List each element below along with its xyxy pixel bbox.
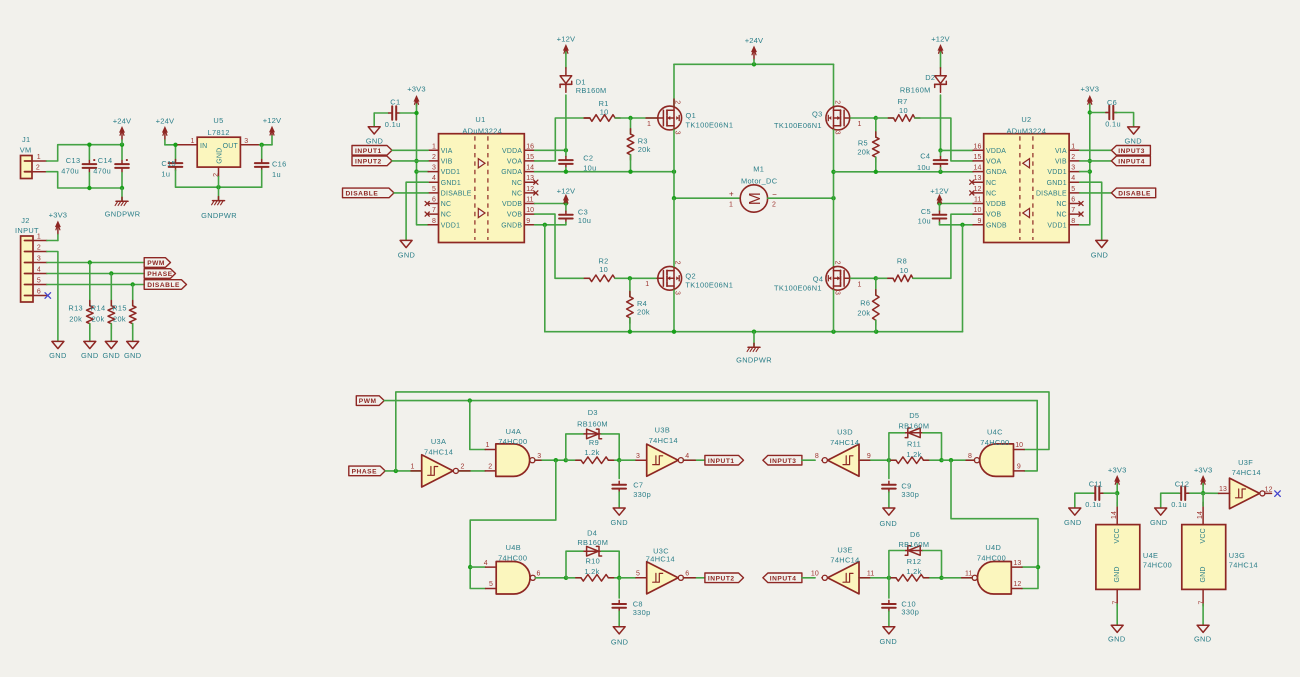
svg-text:GND: GND (611, 637, 628, 646)
svg-text:RB160M: RB160M (898, 540, 929, 549)
svg-text:20k: 20k (857, 148, 870, 157)
svg-text:12: 12 (1265, 486, 1273, 493)
svg-text:Q4: Q4 (813, 275, 824, 284)
svg-text:INPUT3: INPUT3 (1118, 148, 1145, 155)
svg-text:R10: R10 (585, 557, 600, 566)
svg-text:GNDPWR: GNDPWR (105, 210, 141, 219)
svg-text:C11: C11 (1089, 479, 1103, 488)
svg-text:2: 2 (772, 201, 776, 208)
svg-text:C6: C6 (1107, 98, 1117, 107)
svg-text:C13: C13 (66, 156, 81, 165)
svg-text:INPUT1: INPUT1 (355, 148, 382, 155)
svg-text:1u: 1u (161, 170, 170, 179)
svg-text:1u: 1u (272, 170, 281, 179)
svg-text:VIB: VIB (1055, 159, 1067, 166)
svg-text:74HC00: 74HC00 (980, 438, 1009, 447)
svg-text:C2: C2 (583, 153, 593, 162)
svg-text:1.2k: 1.2k (584, 448, 599, 457)
svg-text:2: 2 (488, 464, 492, 471)
svg-text:3: 3 (37, 256, 41, 263)
svg-text:INPUT1: INPUT1 (708, 458, 735, 465)
svg-text:U3B: U3B (655, 425, 670, 434)
svg-text:R12: R12 (907, 557, 922, 566)
svg-text:20k: 20k (92, 315, 105, 324)
svg-text:GND: GND (81, 351, 98, 360)
svg-text:1: 1 (645, 281, 649, 288)
svg-text:9: 9 (526, 218, 530, 225)
svg-text:+12V: +12V (930, 186, 949, 195)
svg-text:J2: J2 (21, 216, 30, 225)
svg-text:C7: C7 (633, 481, 643, 490)
svg-text:+24V: +24V (113, 116, 132, 125)
svg-text:20k: 20k (69, 315, 82, 324)
svg-text:INPUT4: INPUT4 (1118, 159, 1145, 166)
svg-text:1: 1 (1071, 143, 1075, 150)
svg-text:VDD1: VDD1 (441, 222, 460, 229)
svg-text:NC: NC (512, 180, 522, 187)
svg-text:VOB: VOB (986, 212, 1001, 219)
svg-text:2: 2 (833, 261, 840, 265)
svg-text:C1: C1 (390, 98, 400, 107)
svg-text:U3A: U3A (431, 437, 446, 446)
svg-text:+3V3: +3V3 (1194, 465, 1213, 474)
svg-text:GND: GND (49, 351, 66, 360)
svg-text:+3V3: +3V3 (1081, 85, 1100, 94)
svg-text:C15: C15 (161, 159, 176, 168)
svg-text:12: 12 (526, 186, 534, 193)
svg-text:IN: IN (200, 143, 207, 150)
svg-text:+12V: +12V (931, 34, 950, 43)
svg-text:10: 10 (599, 265, 608, 274)
svg-text:74HC14: 74HC14 (646, 555, 675, 564)
svg-text:M: M (747, 192, 764, 205)
svg-text:GND: GND (124, 351, 141, 360)
svg-text:+3V3: +3V3 (49, 210, 68, 219)
svg-text:+3V3: +3V3 (1108, 465, 1127, 474)
svg-text:10: 10 (899, 106, 908, 115)
svg-text:INPUT2: INPUT2 (708, 575, 735, 582)
svg-text:U4B: U4B (506, 543, 521, 552)
svg-text:VDD1: VDD1 (441, 169, 460, 176)
svg-text:2: 2 (432, 154, 436, 161)
svg-text:5: 5 (37, 278, 41, 285)
svg-text:U3E: U3E (837, 545, 852, 554)
svg-text:VIA: VIA (441, 148, 453, 155)
svg-text:R15: R15 (112, 304, 127, 313)
svg-text:2: 2 (833, 100, 840, 104)
svg-text:1: 1 (411, 464, 415, 471)
svg-text:NC: NC (441, 212, 451, 219)
svg-text:13: 13 (526, 175, 534, 182)
svg-text:14: 14 (526, 165, 534, 172)
svg-text:U4E: U4E (1143, 551, 1158, 560)
svg-text:3: 3 (636, 453, 640, 460)
svg-text:TK100E06N1: TK100E06N1 (685, 280, 733, 289)
svg-text:4: 4 (432, 175, 436, 182)
svg-text:8: 8 (1071, 218, 1075, 225)
svg-text:INPUT2: INPUT2 (355, 159, 382, 166)
svg-text:U4D: U4D (985, 543, 1001, 552)
svg-text:GNDB: GNDB (986, 222, 1007, 229)
svg-text:INPUT: INPUT (15, 226, 39, 235)
svg-text:GND1: GND1 (1047, 180, 1067, 187)
svg-text:RB160M: RB160M (577, 538, 608, 547)
svg-text:2: 2 (1071, 154, 1075, 161)
svg-text:0.1u: 0.1u (1105, 119, 1121, 128)
svg-text:VDDA: VDDA (502, 148, 522, 155)
svg-text:VCC: VCC (1200, 528, 1207, 543)
svg-text:VDDB: VDDB (986, 201, 1006, 208)
svg-text:8: 8 (968, 453, 972, 460)
svg-text:ADuM3224: ADuM3224 (462, 126, 502, 135)
svg-text:PWM: PWM (359, 398, 377, 405)
svg-text:9: 9 (1017, 464, 1021, 471)
svg-text:DISABLE: DISABLE (441, 191, 472, 198)
svg-text:2: 2 (37, 245, 41, 252)
svg-text:6: 6 (685, 571, 689, 578)
svg-text:330p: 330p (901, 608, 919, 617)
svg-text:16: 16 (974, 143, 982, 150)
svg-text:VOB: VOB (507, 212, 522, 219)
svg-text:GND: GND (1124, 137, 1141, 146)
svg-text:NC: NC (986, 180, 996, 187)
svg-text:NC: NC (1056, 201, 1066, 208)
svg-text:J1: J1 (22, 135, 31, 144)
svg-text:VM: VM (20, 145, 32, 154)
svg-text:R14: R14 (91, 304, 106, 313)
svg-text:11: 11 (526, 197, 533, 204)
svg-text:TK100E06N1: TK100E06N1 (774, 284, 822, 293)
svg-text:TK100E06N1: TK100E06N1 (686, 121, 734, 130)
svg-text:5: 5 (1071, 186, 1075, 193)
svg-text:Q1: Q1 (686, 111, 697, 120)
svg-text:10: 10 (811, 571, 819, 578)
svg-text:5: 5 (636, 571, 640, 578)
svg-text:R5: R5 (858, 139, 868, 148)
svg-text:14: 14 (974, 165, 982, 172)
svg-text:4: 4 (685, 453, 689, 460)
svg-text:6: 6 (432, 197, 436, 204)
svg-text:+12V: +12V (557, 34, 576, 43)
svg-text:GND: GND (880, 637, 897, 646)
svg-text:C14: C14 (98, 156, 113, 165)
svg-text:NC: NC (1056, 212, 1066, 219)
svg-text:74HC00: 74HC00 (1143, 561, 1172, 570)
svg-text:4: 4 (37, 267, 41, 274)
svg-text:74HC14: 74HC14 (424, 448, 453, 457)
svg-text:R6: R6 (860, 299, 870, 308)
svg-text:GND: GND (1108, 635, 1125, 644)
svg-text:NC: NC (441, 201, 451, 208)
svg-text:3: 3 (432, 165, 436, 172)
svg-text:10u: 10u (918, 216, 931, 225)
svg-text:11: 11 (965, 571, 972, 578)
svg-text:U5: U5 (213, 116, 223, 125)
svg-text:1: 1 (858, 121, 862, 128)
svg-text:9: 9 (978, 218, 982, 225)
svg-text:1: 1 (37, 154, 41, 161)
svg-text:GND: GND (216, 148, 223, 164)
svg-text:74HC00: 74HC00 (498, 437, 527, 446)
svg-text:GND: GND (610, 518, 627, 527)
svg-text:M1: M1 (753, 164, 764, 173)
svg-text:VIA: VIA (1055, 148, 1067, 155)
svg-text:3: 3 (244, 138, 248, 145)
svg-text:Q3: Q3 (812, 109, 823, 118)
svg-text:D4: D4 (587, 528, 597, 537)
svg-text:1.2k: 1.2k (906, 450, 921, 459)
svg-text:1: 1 (729, 201, 733, 208)
svg-text:RB160M: RB160M (576, 86, 607, 95)
svg-text:6: 6 (537, 571, 541, 578)
svg-text:+3V3: +3V3 (407, 85, 426, 94)
svg-text:VDDB: VDDB (502, 201, 522, 208)
svg-text:Motor_DC: Motor_DC (741, 177, 778, 186)
svg-text:20k: 20k (857, 309, 870, 318)
svg-text:NC: NC (512, 191, 522, 198)
svg-text:GND: GND (398, 250, 415, 259)
svg-text:0.1u: 0.1u (385, 120, 401, 129)
svg-text:2: 2 (461, 464, 465, 471)
svg-text:U1: U1 (475, 115, 485, 124)
svg-text:GND1: GND1 (441, 180, 461, 187)
svg-text:13: 13 (974, 175, 982, 182)
svg-text:1: 1 (37, 234, 41, 241)
svg-text:U3G: U3G (1229, 551, 1245, 560)
svg-text:RB160M: RB160M (577, 419, 608, 428)
svg-text:VIB: VIB (441, 159, 453, 166)
svg-text:10: 10 (600, 108, 609, 117)
svg-text:470u: 470u (93, 166, 111, 175)
svg-text:R13: R13 (68, 304, 83, 313)
svg-text:74HC00: 74HC00 (498, 553, 527, 562)
svg-text:74HC14: 74HC14 (1229, 561, 1258, 570)
svg-text:U3D: U3D (837, 428, 853, 437)
svg-text:1: 1 (858, 281, 862, 288)
svg-text:DISABLE: DISABLE (1036, 191, 1067, 198)
svg-text:GND: GND (880, 519, 897, 528)
svg-text:7: 7 (1113, 601, 1120, 605)
svg-text:1: 1 (191, 138, 195, 145)
svg-text:7: 7 (432, 207, 436, 214)
svg-text:D5: D5 (909, 411, 919, 420)
svg-text:U4C: U4C (987, 428, 1003, 437)
svg-text:5: 5 (432, 186, 436, 193)
svg-text:GNDA: GNDA (501, 169, 522, 176)
svg-text:7: 7 (1199, 601, 1206, 605)
svg-text:RB160M: RB160M (900, 86, 931, 95)
svg-text:+12V: +12V (557, 186, 576, 195)
svg-text:14: 14 (1111, 511, 1118, 519)
svg-text:3: 3 (833, 131, 840, 135)
svg-text:R8: R8 (897, 256, 907, 265)
svg-text:16: 16 (526, 143, 534, 150)
svg-text:2: 2 (674, 261, 681, 265)
svg-text:5: 5 (489, 581, 493, 588)
svg-text:DISABLE: DISABLE (1118, 191, 1151, 198)
svg-text:11: 11 (867, 571, 874, 578)
svg-text:+12V: +12V (263, 116, 282, 125)
svg-text:GND: GND (1194, 635, 1211, 644)
svg-text:DISABLE: DISABLE (147, 282, 180, 289)
svg-text:8: 8 (815, 453, 819, 460)
svg-text:TK100E06N1: TK100E06N1 (774, 121, 822, 130)
svg-text:GND: GND (1091, 250, 1108, 259)
svg-text:+: + (729, 190, 734, 199)
svg-text:1.2k: 1.2k (906, 567, 921, 576)
svg-text:L7812: L7812 (208, 128, 230, 137)
svg-text:GND: GND (1150, 518, 1167, 527)
svg-text:74HC14: 74HC14 (1232, 468, 1261, 477)
svg-text:GND: GND (1200, 566, 1207, 582)
svg-text:C5: C5 (921, 207, 931, 216)
svg-text:D3: D3 (588, 408, 598, 417)
svg-text:1: 1 (432, 143, 436, 150)
svg-text:7: 7 (1071, 207, 1075, 214)
svg-text:DISABLE: DISABLE (346, 191, 379, 198)
svg-text:C4: C4 (920, 152, 930, 161)
svg-text:8: 8 (432, 218, 436, 225)
svg-text:0.1u: 0.1u (1171, 500, 1187, 509)
svg-text:470u: 470u (61, 166, 79, 175)
svg-text:VDDA: VDDA (986, 148, 1006, 155)
svg-text:10: 10 (974, 207, 982, 214)
svg-text:+24V: +24V (745, 36, 764, 45)
svg-text:R11: R11 (907, 440, 921, 449)
svg-text:3: 3 (833, 291, 840, 295)
svg-text:VCC: VCC (1114, 528, 1121, 543)
svg-text:RB160M: RB160M (898, 422, 929, 431)
svg-text:D6: D6 (910, 530, 920, 539)
svg-text:20k: 20k (637, 308, 650, 317)
svg-text:13: 13 (1013, 560, 1021, 567)
svg-text:GNDA: GNDA (986, 169, 1007, 176)
svg-text:4: 4 (1071, 175, 1075, 182)
svg-text:VOA: VOA (986, 159, 1001, 166)
svg-text:74HC14: 74HC14 (649, 436, 678, 445)
svg-text:+24V: +24V (156, 116, 175, 125)
svg-text:GND: GND (1064, 518, 1081, 527)
svg-text:330p: 330p (901, 490, 919, 499)
svg-text:4: 4 (484, 560, 488, 567)
svg-text:PHASE: PHASE (147, 271, 173, 278)
svg-text:U4A: U4A (506, 427, 521, 436)
svg-text:R3: R3 (638, 136, 648, 145)
svg-text:11: 11 (974, 197, 981, 204)
svg-text:20k: 20k (113, 315, 126, 324)
svg-text:10: 10 (1015, 442, 1023, 449)
svg-text:GND: GND (1114, 566, 1121, 582)
svg-text:330p: 330p (633, 490, 651, 499)
svg-text:GND: GND (366, 136, 383, 145)
svg-text:3: 3 (537, 453, 541, 460)
svg-text:0.1u: 0.1u (1085, 500, 1101, 509)
svg-text:10: 10 (900, 266, 909, 275)
svg-text:Q2: Q2 (685, 271, 696, 280)
svg-text:VDD1: VDD1 (1047, 169, 1066, 176)
svg-text:15: 15 (974, 154, 982, 161)
svg-text:GND: GND (103, 351, 120, 360)
svg-text:15: 15 (526, 154, 534, 161)
svg-text:VDD1: VDD1 (1047, 222, 1066, 229)
svg-text:3: 3 (1071, 165, 1075, 172)
svg-text:1: 1 (486, 442, 490, 449)
svg-text:VOA: VOA (507, 159, 522, 166)
svg-text:GNDPWR: GNDPWR (736, 355, 772, 364)
svg-text:2: 2 (674, 100, 681, 104)
svg-text:10u: 10u (578, 216, 591, 225)
svg-text:9: 9 (867, 453, 871, 460)
svg-text:12: 12 (974, 186, 982, 193)
svg-text:1.2k: 1.2k (584, 567, 599, 576)
svg-text:74HC14: 74HC14 (830, 438, 859, 447)
svg-text:6: 6 (37, 289, 41, 296)
svg-text:74HC00: 74HC00 (977, 553, 1006, 562)
svg-text:10: 10 (526, 207, 534, 214)
svg-text:ADuM3224: ADuM3224 (1007, 126, 1047, 135)
svg-text:13: 13 (1219, 486, 1227, 493)
svg-text:NC: NC (986, 191, 996, 198)
svg-text:R9: R9 (589, 438, 599, 447)
svg-text:GNDB: GNDB (501, 222, 522, 229)
svg-text:10u: 10u (917, 163, 930, 172)
svg-text:C16: C16 (272, 159, 287, 168)
svg-text:D2: D2 (925, 73, 935, 82)
svg-text:INPUT3: INPUT3 (770, 458, 797, 465)
svg-text:1: 1 (647, 121, 651, 128)
svg-text:330p: 330p (633, 608, 651, 617)
svg-text:20k: 20k (638, 145, 651, 154)
svg-text:GNDPWR: GNDPWR (201, 211, 237, 220)
svg-text:2: 2 (36, 164, 40, 171)
svg-text:U2: U2 (1021, 115, 1031, 124)
svg-text:74HC14: 74HC14 (830, 556, 859, 565)
svg-text:PHASE: PHASE (352, 469, 378, 476)
svg-text:C12: C12 (1175, 479, 1190, 488)
svg-text:12: 12 (1013, 581, 1021, 588)
svg-text:INPUT4: INPUT4 (770, 575, 797, 582)
svg-text:OUT: OUT (223, 143, 239, 150)
svg-text:U3F: U3F (1238, 458, 1253, 467)
svg-text:PWM: PWM (147, 260, 165, 267)
svg-text:6: 6 (1071, 197, 1075, 204)
svg-text:14: 14 (1197, 511, 1204, 519)
svg-text:R7: R7 (898, 97, 908, 106)
